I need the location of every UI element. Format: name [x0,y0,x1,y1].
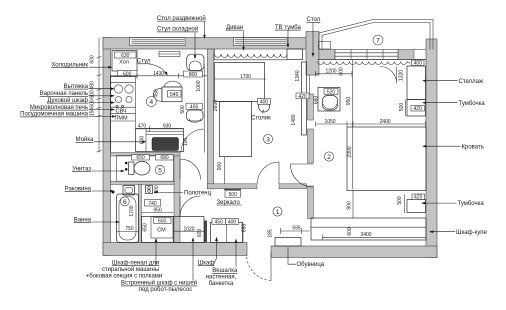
svg-text:1020: 1020 [183,226,194,232]
svg-text:Диван: Диван [226,25,243,31]
sofa back wavy line living room [215,54,288,57]
folded chair on kitchen wall [159,52,180,57]
bathroom door swing arc [180,196,201,217]
svg-text:420: 420 [414,106,423,112]
svg-text:Ванна: Ванна [74,217,92,223]
svg-text:Стул складной: Стул складной [157,26,198,33]
svg-text:100: 100 [183,138,189,147]
dim box 600 CM [154,218,172,224]
svg-text:Варочная панель: Варочная панель [40,91,88,97]
svg-text:1700: 1700 [240,74,251,80]
svg-text:Кровать: Кровать [462,144,484,150]
svg-text:Стол: Стол [307,17,321,23]
balcony sliding door frame [335,50,398,60]
dim chain line kitchen right [203,64,205,128]
svg-text:900: 900 [347,201,353,210]
balcony outline inner [322,23,430,50]
svg-text:650: 650 [136,155,145,161]
window niche kitchen [130,38,186,46]
svg-text:420: 420 [414,195,423,201]
nightstand 2 [407,200,426,213]
svg-text:900: 900 [217,162,223,171]
svg-text:450: 450 [215,219,224,225]
dim 1700 sofa [215,78,267,80]
wall stub hallway bottom [204,221,207,243]
room circle 2 [324,152,333,161]
bedroom door swing arc [291,165,314,188]
wall bath/laundry closet [139,185,142,243]
wall bedroom west, upper segment [308,94,314,120]
small table circle [259,101,270,112]
svg-text:455: 455 [190,105,199,111]
shelving unit [407,66,426,100]
svg-text:Микроволновая печь: Микроволновая печь [30,105,88,111]
WC room outline [117,156,174,182]
dim box 740 [145,200,161,207]
toilet bowl [134,161,150,175]
svg-text:660: 660 [313,96,319,105]
room circle 7 balcony [373,35,383,45]
dim box 680 WC [156,155,174,160]
svg-text:600: 600 [158,219,167,225]
svg-text:500: 500 [180,105,186,114]
wall bottom right [271,246,437,258]
svg-text:ПММ: ПММ [114,116,128,122]
svg-text:2: 2 [327,154,331,161]
room circle 1 [273,207,282,216]
wall between kitchen and living room [208,49,214,189]
balcony sliding door gray right [398,50,414,60]
wall living room bottom, left segment [208,184,258,189]
svg-text:7: 7 [376,38,380,45]
dim box 420 nightstand1 [411,106,425,112]
svg-text:Духовой шкаф: Духовой шкаф [47,97,88,104]
bedroom door leaf [290,163,313,165]
window niche living room [234,38,288,46]
dim box 520 desk [324,89,338,95]
svg-text:банкетка: банкетка [209,281,234,287]
kitchen counter left leg [111,77,136,152]
svg-text:Хол: Хол [119,60,129,66]
svg-text:1320: 1320 [398,70,404,81]
svg-text:3: 3 [266,136,270,143]
dim box 420 nightstand2 [412,194,425,200]
svg-text:под робот-пылесос: под робот-пылесос [139,287,193,293]
svg-text:650: 650 [143,223,149,232]
dim 600 fridge width box [118,71,138,77]
dim line 950 [142,212,174,214]
svg-text:Холодильник: Холодильник [51,62,88,68]
bathtub inner [119,197,136,241]
hob small knobs [116,105,118,107]
mirror dim box 500 [225,191,241,198]
wall chunk between living room and balcony door [306,32,319,76]
svg-text:5: 5 [158,167,162,174]
WC door swing arc [180,159,201,180]
balcony sliding door gray left [319,50,335,60]
towel dryer [146,186,153,194]
TV stand [287,49,303,60]
svg-text:600: 600 [347,227,353,236]
kitchen sink dark [152,138,179,151]
svg-text:1050: 1050 [324,119,335,125]
dim box 420 living [296,93,309,99]
washing machine box [151,217,173,239]
dim line 1050/2400 [316,121,426,127]
svg-text:Тумбочка: Тумбочка [458,201,485,207]
tall cabinet right side living [302,62,307,135]
built-in closet [173,217,204,243]
svg-text:3400: 3400 [360,232,371,238]
bed [347,127,426,191]
svg-text:500: 500 [397,196,403,205]
svg-text:400: 400 [414,61,423,67]
living room door leaf [278,162,280,184]
dim 3400 [323,235,427,241]
svg-text:600: 600 [90,99,96,108]
svg-text:1430: 1430 [153,71,164,77]
svg-text:600: 600 [90,90,96,99]
room circle 4 [146,97,156,107]
wall divider WC/bath [111,181,175,184]
chair 2 left of table [153,88,161,101]
wall bedroom west, lower segment [308,186,314,219]
balcony floor right edge into wall [414,50,426,60]
balcony outline outer [319,20,433,50]
svg-text:680: 680 [160,155,169,161]
svg-text:1000: 1000 [196,80,202,91]
hob burner circles [114,85,122,93]
svg-text:Обувница: Обувница [297,262,325,268]
svg-text:740: 740 [148,201,157,207]
svg-text:Встроенный шкаф с нишей: Встроенный шкаф с нишей [121,280,197,287]
dim line 1200 [316,71,353,77]
svg-text:400: 400 [260,99,269,105]
vertical dim line bedroom [352,60,354,190]
svg-text:Тумбочка: Тумбочка [459,101,486,107]
counter hatch lines [146,129,184,152]
svg-text:655: 655 [241,224,247,233]
partition line living/bedroom [309,75,311,94]
svg-text:настенная,: настенная, [206,275,237,281]
svg-text:Стол раздвижной: Стол раздвижной [157,15,206,22]
folding table stored in kitchen niche [132,40,185,44]
dim box 400 small table [258,99,271,105]
wall bottom left [103,243,247,256]
dim box 800 armchair [184,71,203,77]
svg-text:Вытяжка: Вытяжка [64,84,89,90]
svg-text:Вешалка: Вешалка [212,268,238,274]
svg-text:4: 4 [149,99,153,106]
dim box 400 [226,219,239,225]
chair below armchair [187,110,204,121]
svg-text:2300: 2300 [347,146,353,157]
entrance door swing arc [246,255,271,281]
svg-text:540: 540 [170,92,179,98]
svg-text:6: 6 [123,199,127,206]
svg-text:Шкаф-пенал для: Шкаф-пенал для [112,260,159,266]
svg-text:500: 500 [229,192,238,198]
sofa corner big part [215,63,265,102]
svg-text:630: 630 [121,53,130,59]
bathtub outer [117,194,139,243]
fridge [112,51,137,72]
svg-text:800: 800 [189,72,198,78]
svg-text:Посудомоечная машина: Посудомоечная машина [20,112,89,118]
svg-text:+боковая секция с полками: +боковая секция с полками [86,274,163,280]
wall left outer [103,38,111,256]
window sill lines living room [235,40,286,44]
nightstand 1 [407,100,426,117]
svg-text:Столик: Столик [251,116,271,122]
room circle 6 [120,197,129,206]
svg-text:930: 930 [163,124,172,130]
chair 1 at table top [164,81,182,87]
svg-text:1700: 1700 [129,205,135,216]
sofa chaise part [220,102,252,157]
svg-text:Стеллаж: Стеллаж [459,79,484,85]
svg-text:600: 600 [90,55,96,64]
svg-text:750: 750 [125,226,134,232]
wall top (kitchen+living) [103,38,307,50]
svg-text:950: 950 [153,207,162,213]
table on balcony [319,42,331,50]
svg-text:420: 420 [298,94,307,100]
svg-text:150: 150 [90,108,96,117]
dim box 455 [186,103,202,109]
svg-text:600: 600 [339,67,345,76]
svg-text:ТВ тумба: ТВ тумба [275,25,301,31]
svg-text:480: 480 [90,81,96,90]
dim box 630 fridge [115,52,137,58]
dim box 540 table [168,91,182,97]
svg-text:450: 450 [154,89,160,98]
svg-text:185: 185 [268,229,274,238]
svg-text:400: 400 [228,219,237,225]
svg-text:1480: 1480 [291,114,297,125]
wall bedroom west, middle segment [308,129,314,163]
plumbing dots WC [125,162,128,165]
dim box 400 shelving [412,60,425,66]
dim line kitchen top row [111,73,208,79]
dim line kitchen sink row [136,126,184,132]
armchair kitchen (folding chair) [187,54,204,70]
radiator bedroom [318,62,411,65]
bedroom window line [317,59,426,61]
svg-text:стиральной машины: стиральной машины [102,266,159,273]
appliance column divider lines [111,83,136,121]
sofa seat line living room [215,49,288,60]
hanger bench zone [211,223,243,243]
dim 1020 [173,230,204,232]
svg-text:Шкаф: Шкаф [198,260,215,266]
svg-text:2400: 2400 [379,119,390,125]
wall WC top [111,153,181,157]
kitchen table [162,87,182,102]
desk [318,88,340,112]
toilet tank [129,162,135,174]
svg-text:1: 1 [276,209,280,216]
room circle 3 [263,134,272,143]
laundry cabinet [142,217,174,243]
svg-text:1340: 1340 [295,70,301,81]
svg-text:520: 520 [327,89,336,95]
svg-text:600: 600 [123,72,132,78]
svg-text:600: 600 [197,229,203,238]
kitchen door leaf [204,129,206,153]
svg-text:1200: 1200 [325,69,336,75]
svg-text:Унитаз: Унитаз [72,166,91,172]
plumbing dot washbasin [112,191,115,194]
washbasin [123,186,135,196]
wall living room bottom, right segment [279,184,307,189]
svg-text:470: 470 [138,124,147,130]
svg-text:Раковина: Раковина [65,186,92,192]
svg-text:Полотенц: Полотенц [184,191,212,197]
svg-text:2600: 2600 [213,100,219,111]
svg-text:СМ: СМ [157,228,166,234]
room circle 5 [155,165,164,174]
living room door swing arc [258,162,280,184]
svg-text:950: 950 [346,97,352,106]
WC door leaf [179,159,181,180]
dim box 650 WC [132,155,150,160]
svg-text:Шкаф-купе: Шкаф-купе [456,230,487,236]
dim 695 [281,228,310,234]
shoe rack [275,238,301,247]
mirror line on wall [224,188,241,190]
dim box 450 [212,219,226,225]
svg-text:500: 500 [399,103,405,112]
svg-text:695: 695 [292,226,301,232]
wall WC/bath east [174,156,180,243]
kitchen door swing arc [181,129,205,153]
bathroom door leaf [179,196,181,217]
kitchen counter bottom leg [136,129,184,152]
balcony door swing arc in bedroom [380,67,397,84]
wall right outer [426,39,437,258]
entrance door leaf [270,253,272,282]
wardrobe [311,218,426,240]
svg-text:Мойка: Мойка [76,136,95,143]
desk chair [323,96,338,111]
svg-text:СВЧ: СВЧ [115,109,126,115]
